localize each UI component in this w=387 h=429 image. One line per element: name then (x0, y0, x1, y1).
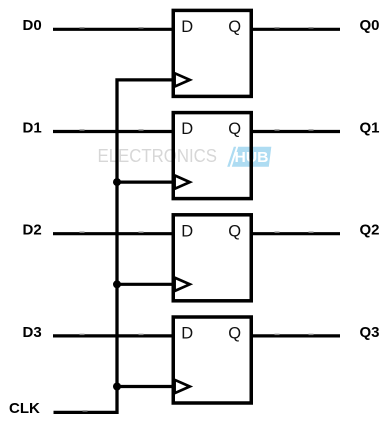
wire D2 input (53, 232, 173, 235)
clock triangle (U2) (175, 175, 190, 188)
clock triangle (U1) (175, 73, 190, 86)
svg-text:Q: Q (228, 18, 241, 36)
svg-text:Q2: Q2 (360, 222, 380, 239)
wire Q1 output (252, 130, 341, 133)
D flip-flop U4 (173, 317, 251, 403)
D flip-flop U3 (173, 215, 251, 301)
svg-text:D1: D1 (23, 119, 42, 136)
D flip-flop U2 (173, 113, 251, 199)
clock triangle (U3) (175, 278, 190, 291)
svg-text:Q1: Q1 (360, 119, 380, 136)
wire D1 input (53, 130, 173, 133)
svg-text:D: D (181, 120, 193, 138)
svg-text:Q3: Q3 (360, 324, 380, 341)
wire CLK branch to U3 (117, 283, 172, 286)
junction dot CLK/U3 (113, 280, 121, 288)
D flip-flop U1 (173, 10, 251, 96)
wire D3 input (53, 334, 173, 337)
svg-text:Q0: Q0 (360, 17, 380, 34)
junction dot CLK/U4 (113, 383, 121, 391)
watermark HUB badge (232, 147, 271, 167)
svg-text:Q: Q (228, 325, 241, 343)
svg-text:Q: Q (228, 222, 241, 240)
svg-text:D: D (181, 222, 193, 240)
wire CLK net: horizontal run, vertical bus, branch to U1 clock (54, 80, 173, 413)
junction dot CLK/U2 (113, 178, 121, 186)
clock triangle (U4) (175, 380, 190, 393)
svg-text:Q: Q (228, 120, 241, 138)
svg-text:D: D (181, 325, 193, 343)
wire Q0 output (252, 28, 341, 31)
svg-text:CLK: CLK (9, 400, 40, 417)
watermark HUB badge sliver (227, 147, 236, 167)
svg-text:D0: D0 (23, 17, 42, 34)
wire D0 input (53, 28, 173, 31)
wire CLK branch to U2 (117, 181, 172, 184)
svg-text:D2: D2 (23, 222, 42, 239)
wire CLK branch to U4 (117, 385, 172, 388)
wire Q3 output (252, 334, 341, 337)
svg-text:D3: D3 (23, 324, 42, 341)
svg-text:D: D (181, 18, 193, 36)
wire Q2 output (252, 232, 341, 235)
